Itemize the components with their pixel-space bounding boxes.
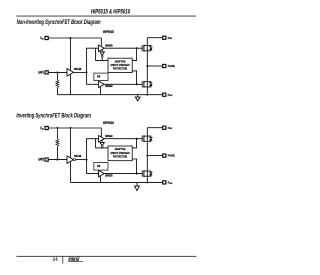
svg-text:FW: FW <box>97 163 101 168</box>
svg-text:BUFFER: BUFFER <box>74 69 81 71</box>
svg-text:HIP5015: HIP5015 <box>103 30 114 35</box>
svg-text:2-3: 2-3 <box>53 257 57 262</box>
svg-text:PROTECTION: PROTECTION <box>113 155 127 158</box>
svg-text:DRIVER: DRIVER <box>105 86 113 88</box>
svg-text:HIP5015 & HIP5016: HIP5015 & HIP5016 <box>91 9 130 16</box>
svg-text:GATE: GATE <box>38 70 44 75</box>
svg-text:PHASE: PHASE <box>168 64 175 69</box>
svg-text:PROTECTION: PROTECTION <box>113 67 127 70</box>
svg-text:PHASE: PHASE <box>168 153 175 158</box>
svg-text:Non-Inverting SynchroFET Block: Non-Inverting SynchroFET Block Diagram <box>17 20 101 27</box>
svg-text:FW: FW <box>97 74 101 79</box>
svg-text:HIP5016: HIP5016 <box>103 121 114 126</box>
svg-text:GATE: GATE <box>38 157 44 162</box>
svg-text:intersil: intersil <box>68 256 79 263</box>
svg-text:DRIVER: DRIVER <box>105 175 113 177</box>
svg-text:DRIVER: DRIVER <box>105 45 113 47</box>
svg-text:BUFFER: BUFFER <box>74 156 81 158</box>
svg-text:DRIVER: DRIVER <box>105 136 113 138</box>
svg-text:Inverting SynchroFET Block Dia: Inverting SynchroFET Block Diagram <box>16 113 91 120</box>
